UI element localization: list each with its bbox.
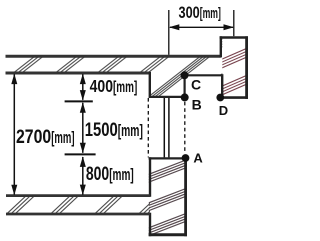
- hidden face dashed line right (B to A): [184, 102, 186, 154]
- point A: [182, 154, 190, 162]
- top slab hatching: [0, 36, 279, 100]
- 400 top arrowhead: [80, 74, 86, 85]
- point C: [181, 71, 189, 79]
- 300 dimension extension line left: [168, 10, 170, 55]
- svg-text:800: 800: [86, 164, 109, 185]
- hidden face dashed line left: [147, 98, 149, 157]
- 400 bottom arrowhead: [80, 90, 86, 101]
- right wall hatching: [218, 47, 249, 96]
- svg-text:A: A: [193, 151, 203, 166]
- 300 right arrowhead: [224, 24, 235, 30]
- lower wall hatching: [147, 160, 187, 237]
- lower wall right edge: [184, 157, 187, 236]
- svg-text:[mm]: [mm]: [109, 165, 134, 184]
- lower wall bottom edge: [149, 233, 187, 236]
- 800 dimension line: [82, 157, 84, 195]
- thin member double line right: [168, 98, 170, 157]
- 2700 top arrowhead: [11, 74, 17, 85]
- svg-text:2700: 2700: [16, 127, 51, 148]
- 800 top arrowhead: [80, 156, 86, 167]
- 800 bottom arrowhead: [80, 185, 86, 196]
- parapet step top edge: [220, 36, 248, 39]
- svg-text:400: 400: [90, 76, 114, 96]
- top slab bottom edge: [6, 72, 150, 75]
- haunch step vertical: [149, 72, 151, 98]
- right wall inner edge: [221, 74, 223, 97]
- 300 dimension line: [170, 26, 233, 28]
- 400 dimension line: [82, 75, 84, 100]
- svg-text:[mm]: [mm]: [200, 5, 221, 22]
- bottom slab top edge: [6, 194, 150, 197]
- lower wall top edge: [149, 157, 187, 159]
- point B: [181, 93, 189, 101]
- haunch step horizontal to B: [150, 96, 185, 98]
- point D: [216, 94, 224, 102]
- lower wall left edge lower segment: [149, 213, 151, 237]
- svg-text:[mm]: [mm]: [118, 121, 143, 140]
- bottom slab hatching: [5, 196, 167, 216]
- svg-text:[mm]: [mm]: [113, 79, 137, 96]
- 1500 top arrowhead: [80, 102, 86, 113]
- 300 left arrowhead: [169, 24, 180, 30]
- 1500 dimension line: [82, 103, 84, 153]
- svg-text:B: B: [192, 96, 202, 112]
- right wall outer edge: [245, 36, 248, 99]
- right wall bottom edge: [220, 96, 248, 99]
- 2700 bottom arrowhead: [11, 185, 17, 196]
- 300 dimension extension line right: [233, 10, 235, 36]
- lower wall left edge upper segment: [149, 157, 151, 197]
- svg-text:C: C: [191, 77, 201, 93]
- 2700 dimension line: [13, 75, 15, 195]
- bottom slab bottom edge: [6, 213, 150, 216]
- svg-text:[mm]: [mm]: [51, 128, 74, 147]
- C to wall soffit line: [185, 74, 223, 76]
- tick between 400 and 1500: [65, 100, 93, 102]
- thin member double line left: [163, 98, 165, 157]
- svg-text:1500: 1500: [85, 120, 118, 141]
- 1500 bottom arrowhead: [80, 143, 86, 154]
- parapet step inner vertical: [220, 36, 222, 57]
- svg-text:300: 300: [179, 4, 200, 22]
- top slab top edge: [6, 55, 221, 58]
- C to B vertical: [184, 75, 186, 97]
- svg-text:D: D: [219, 103, 228, 118]
- tick between 1500 and 800: [65, 153, 96, 155]
